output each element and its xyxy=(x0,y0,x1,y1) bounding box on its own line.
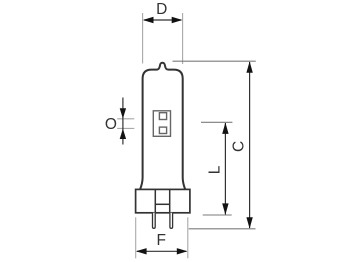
dimension O extension line bottom xyxy=(117,127,134,129)
dimension F extension line left xyxy=(135,217,137,258)
base center vertical right xyxy=(169,189,171,212)
dimension D extension line right xyxy=(182,13,184,64)
bulb outline xyxy=(140,63,185,190)
dimension C extension line bottom xyxy=(189,228,256,230)
dimension L arrow top xyxy=(222,123,228,134)
base center divider xyxy=(155,203,169,205)
pin right xyxy=(170,213,173,229)
dimension L extension line top xyxy=(201,121,232,123)
dimension O line xyxy=(122,98,124,145)
svg-text:C: C xyxy=(231,141,248,152)
dimension L arrow bottom xyxy=(222,203,228,214)
dimension C arrow top xyxy=(246,61,252,72)
dimension F arrow right xyxy=(177,248,188,254)
dimension O arrow lower xyxy=(120,129,126,139)
dimension C extension line top xyxy=(173,60,256,62)
svg-text:L: L xyxy=(206,165,223,174)
svg-text:O: O xyxy=(105,116,117,133)
dimension F extension line right xyxy=(187,217,189,258)
dimension F arrow left xyxy=(136,248,147,254)
svg-text:F: F xyxy=(156,232,165,249)
svg-text:D: D xyxy=(156,1,167,18)
dimension C arrow bottom xyxy=(246,217,252,228)
dimension D arrow left xyxy=(143,17,154,23)
dimension D arrow right xyxy=(172,17,183,23)
dimension L line xyxy=(224,123,226,214)
base center vertical left xyxy=(154,189,156,212)
dimension D extension line left xyxy=(142,13,144,64)
dimension C line xyxy=(249,62,251,228)
pin left xyxy=(153,213,156,229)
filament pinch rectangle xyxy=(153,111,170,137)
pinch contact square lower xyxy=(159,127,166,133)
lamp base cap xyxy=(136,189,190,212)
dimension D line xyxy=(144,19,181,21)
dimension O extension line top xyxy=(117,118,134,120)
dimension F line xyxy=(137,250,186,252)
pinch contact square upper xyxy=(159,113,166,120)
dimension L extension line bottom xyxy=(203,214,232,216)
dimension O arrow upper xyxy=(120,108,126,118)
